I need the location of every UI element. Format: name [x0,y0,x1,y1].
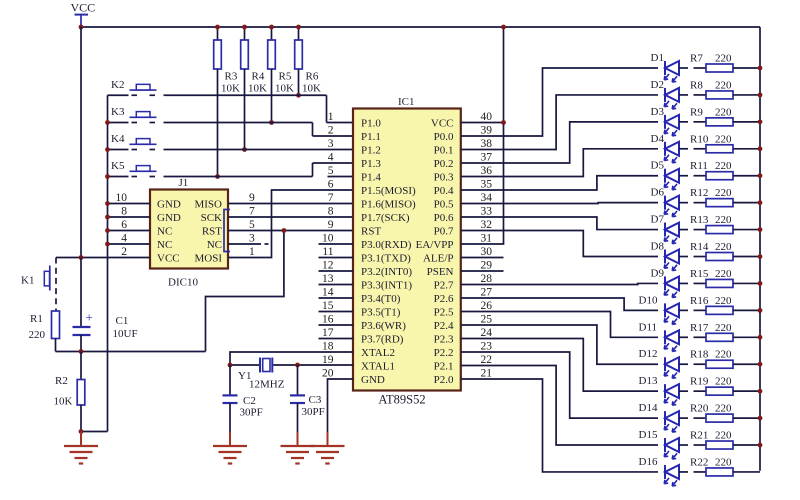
svg-text:C2: C2 [243,395,256,407]
wire P0.6 pin 33 to D7 [461,217,658,230]
wire left GND bus [107,95,109,431]
wire IC pin 5 stub [328,176,354,178]
LED D4 [651,133,680,163]
svg-text:23: 23 [481,341,493,353]
LED D12 [639,348,680,378]
resistor R18 [679,349,760,369]
capacitor C2 [223,365,263,432]
svg-text:1: 1 [249,246,255,258]
svg-text:VCC: VCC [157,253,180,265]
wire PSEN pin 29 stub [461,270,504,272]
svg-text:P2.3: P2.3 [434,334,454,346]
svg-text:220: 220 [715,79,732,91]
LED D5 [651,160,680,190]
svg-text:MISO: MISO [194,199,222,211]
svg-text:R8: R8 [690,79,703,91]
wire P0.3 pin 36 to D4 [461,149,658,177]
svg-text:10K: 10K [248,83,267,95]
svg-text:37: 37 [481,152,493,164]
wire P2.5 pin 26 to D11 [461,312,658,338]
svg-text:29: 29 [481,260,493,272]
LED D10 [639,294,680,324]
svg-text:D10: D10 [639,294,658,306]
svg-text:220: 220 [715,214,732,226]
svg-text:PSEN: PSEN [427,266,454,278]
wire P2.6 pin 27 to D10 [461,298,658,310]
svg-text:40: 40 [481,111,493,123]
svg-text:4: 4 [328,152,334,164]
svg-text:8: 8 [121,206,127,218]
svg-text:P1.7(SCK): P1.7(SCK) [361,212,410,224]
resistor R3 [214,27,240,177]
svg-text:P2.2: P2.2 [434,347,454,359]
svg-text:8: 8 [328,206,334,218]
svg-text:4: 4 [121,233,127,245]
svg-text:D1: D1 [651,52,664,64]
svg-text:9: 9 [249,192,255,204]
resistor R14 [679,241,760,261]
svg-text:R14: R14 [690,241,709,253]
wire VCC left column [80,27,82,258]
svg-text:K5: K5 [111,160,125,172]
capacitor C3 [290,365,325,432]
ground C3 [281,432,315,464]
wire K2 row to IC pin 1 [108,95,354,122]
svg-text:P3.3(INT1): P3.3(INT1) [361,280,412,292]
svg-text:30PF: 30PF [240,407,263,419]
LED D15 [639,429,680,459]
svg-text:25: 25 [481,314,493,326]
resistor R21 [679,430,760,450]
svg-text:6: 6 [328,179,334,191]
svg-text:P1.5(MOSI): P1.5(MOSI) [361,185,416,197]
wire P0.0 pin 39 to D1 [461,68,658,136]
resistor R7 [679,53,760,73]
wire MOSI J1 to IC pin 6 [228,190,353,258]
svg-text:D7: D7 [651,214,665,226]
resistor R4 [241,27,267,150]
resistor R22 [679,456,760,476]
junction dot bus D6 row [758,200,763,205]
svg-text:R19: R19 [690,376,709,388]
wire VCC pin 40 [461,122,504,124]
svg-text:220: 220 [715,268,732,280]
svg-text:RST: RST [361,226,381,238]
resistor R17 [679,322,760,342]
junction dot bus D7 row [758,227,763,232]
resistor R15 [679,268,760,288]
IC U1 AT89S52 body [353,96,461,407]
svg-text:1: 1 [328,111,334,123]
LED D6 [651,187,680,217]
svg-text:DIC10: DIC10 [168,277,198,289]
pin numbers J1 right [249,192,255,258]
resistor R13 [679,214,760,234]
junction dot bus D2 row [758,93,763,98]
svg-text:220: 220 [715,187,732,199]
svg-text:D9: D9 [651,267,665,279]
junction dot bus D12 row [758,362,763,367]
button K3 [111,106,157,118]
resistor R16 [679,295,760,315]
junction dot bus D15 row [758,443,763,448]
LED D1 [651,52,680,82]
svg-text:34: 34 [481,192,493,204]
svg-text:P0.7: P0.7 [434,226,454,238]
svg-text:XTAL1: XTAL1 [361,361,395,373]
wire VCC top rail [81,26,760,28]
svg-text:13: 13 [322,273,334,285]
svg-text:220: 220 [29,329,46,341]
svg-text:P1.6(MISO): P1.6(MISO) [361,199,416,211]
LED D11 [639,321,680,351]
svg-text:220: 220 [715,376,732,388]
wire XTAL1 pin 19 crystal row [230,364,353,366]
svg-text:P0.2: P0.2 [434,158,454,170]
wire P2.7 pin 28 to D9 [461,283,658,284]
svg-text:P0.4: P0.4 [434,185,454,197]
svg-text:220: 220 [715,430,732,442]
resistor R11 [679,160,760,180]
svg-text:35: 35 [481,179,493,191]
svg-text:P0.6: P0.6 [434,212,454,224]
svg-text:P2.0: P2.0 [434,374,454,386]
wire RST J1 to IC pin 9 [228,230,353,232]
svg-text:R17: R17 [690,322,709,334]
LED D2 [651,79,680,109]
svg-text:R10: R10 [690,133,709,145]
svg-text:D13: D13 [639,375,658,387]
capacitor C1 [73,258,138,352]
svg-text:P1.1: P1.1 [361,131,381,143]
wire LED supply right bus [759,27,761,471]
IC right pin labels [416,118,454,387]
svg-text:P3.6(WR): P3.6(WR) [361,320,406,332]
junction dot K4 on bus [105,147,110,152]
svg-text:P2.7: P2.7 [434,280,454,292]
svg-text:R12: R12 [690,187,708,199]
svg-text:J1: J1 [179,177,189,189]
svg-text:10: 10 [322,233,334,245]
svg-text:36: 36 [481,165,493,177]
resistor R10 [679,133,760,153]
svg-text:R5: R5 [279,71,292,83]
svg-text:5: 5 [328,165,334,177]
svg-text:18: 18 [322,341,334,353]
svg-text:R13: R13 [690,214,709,226]
svg-text:220: 220 [715,456,732,468]
wire SCK J1 to IC pin 8 [228,216,353,218]
wire EA/VPP pin 31 to VCC rail [461,27,504,244]
svg-text:39: 39 [481,125,493,137]
junction dot crystal right [295,363,300,368]
LED D8 [651,241,680,271]
junction dot J1 pin 10 bus [105,201,110,206]
svg-text:17: 17 [322,327,334,339]
svg-text:P0.5: P0.5 [434,199,454,211]
svg-text:R18: R18 [690,349,709,361]
svg-text:P1.4: P1.4 [361,172,381,184]
svg-text:2: 2 [121,246,127,258]
svg-text:12: 12 [322,260,334,272]
LED D7 [651,214,680,244]
svg-text:NC: NC [157,226,172,238]
svg-text:15: 15 [322,300,334,312]
svg-text:D2: D2 [651,79,664,91]
svg-text:MOSI: MOSI [194,253,222,265]
svg-text:220: 220 [715,160,732,172]
junction dot RST line [282,228,287,233]
IC right pin numbers [481,111,493,380]
wire J1 pin 4 stub [108,243,151,245]
svg-text:220: 220 [715,133,732,145]
resistor R8 [679,79,760,99]
svg-text:D14: D14 [639,402,658,414]
svg-text:P1.3: P1.3 [361,158,381,170]
resistor R2 [54,352,85,432]
junction dot R6 top rail [296,25,301,30]
junction dot J1 pin 8 bus [105,215,110,220]
svg-text:6: 6 [121,219,127,231]
svg-text:D8: D8 [651,241,665,253]
junction dot R5 bottom K3 row [269,120,274,125]
wire J1 pin 6 stub [108,230,151,232]
wire reset node row [56,351,206,353]
svg-text:2: 2 [328,125,334,137]
wire P0.1 pin 38 to D2 [461,95,658,150]
junction dot crystal left [228,363,233,368]
svg-text:R9: R9 [690,106,703,118]
resistor R5 [268,27,294,123]
wire ALE pin 30 stub [461,257,504,259]
junction dot VCC stem on rail [79,25,84,30]
wire J1 pin 2 VCC row [56,257,150,259]
svg-text:10: 10 [116,192,128,204]
svg-text:9: 9 [328,219,334,231]
LED D14 [639,402,680,432]
wire J1 pin 8 stub [108,216,151,218]
svg-text:XTAL2: XTAL2 [361,347,395,359]
junction dot R4 top rail [242,25,247,30]
svg-text:EA/VPP: EA/VPP [416,239,454,251]
svg-text:26: 26 [481,300,493,312]
wire GND pin 20 [328,379,354,432]
junction dot J1 pin 4 bus [105,242,110,247]
IC left pin labels [361,118,416,387]
svg-text:K3: K3 [111,106,125,118]
svg-text:R21: R21 [690,430,708,442]
wire P2.0 pin 21 to D16 [461,379,658,472]
svg-text:D5: D5 [651,160,665,172]
wire P2.1 pin 22 to D15 [461,366,658,446]
wire reset node to RST pin [206,231,284,352]
svg-text:P2.1: P2.1 [434,361,454,373]
button K4 [111,133,157,145]
svg-text:220: 220 [715,106,732,118]
svg-text:D15: D15 [639,429,658,441]
wire J1 pin 10 stub [108,203,151,205]
svg-text:38: 38 [481,138,493,150]
svg-text:C1: C1 [116,315,129,327]
svg-text:P0.3: P0.3 [434,172,454,184]
junction dot R6 bottom K2 row [296,93,301,98]
wire K3 row to IC pin 2 [108,123,354,137]
svg-text:P3.4(T0): P3.4(T0) [361,293,401,305]
junction dot bus D10 row [758,308,763,313]
svg-text:+: + [86,310,93,325]
wire J1 NC stub [228,243,269,245]
svg-text:32: 32 [481,219,493,231]
svg-text:P1.2: P1.2 [361,145,381,157]
svg-text:D6: D6 [651,187,665,199]
junction dot EA vertical top rail [501,25,506,30]
svg-text:P2.4: P2.4 [434,320,454,332]
svg-text:C3: C3 [309,394,322,406]
svg-text:P2.5: P2.5 [434,307,454,319]
svg-text:P3.7(RD): P3.7(RD) [361,334,404,346]
svg-text:16: 16 [322,314,334,326]
LED D13 [639,375,680,405]
svg-text:VCC: VCC [71,1,96,15]
svg-text:14: 14 [322,287,334,299]
svg-text:7: 7 [249,206,255,218]
power VCC symbol [71,1,96,28]
svg-text:10K: 10K [54,396,73,408]
resistor R20 [679,403,760,423]
wire P0.5 pin 34 to D6 [461,202,658,205]
svg-text:3: 3 [249,233,255,245]
junction dot bus D3 row [758,119,763,124]
svg-text:P0.1: P0.1 [434,145,454,157]
svg-text:24: 24 [481,327,493,339]
ground IC pin 20 [311,432,345,464]
svg-text:K1: K1 [21,275,34,287]
svg-text:K4: K4 [111,133,125,145]
junction dot VCC column pin2 row [79,255,84,260]
svg-text:D12: D12 [639,348,658,360]
svg-text:GND: GND [361,374,385,386]
resistor R19 [679,376,760,396]
resistor R1 [29,311,60,352]
svg-text:30PF: 30PF [302,406,325,418]
junction dot R5 top rail [269,25,274,30]
svg-text:P3.5(T1): P3.5(T1) [361,307,401,319]
svg-text:22: 22 [481,354,493,366]
resistor R6 [295,27,321,95]
junction dot bus D1 row [758,66,763,71]
wire P2.2 pin 23 to D14 [461,352,658,418]
svg-text:R11: R11 [690,160,708,172]
resistor R9 [679,106,760,126]
svg-text:10K: 10K [302,83,321,95]
crystal Y1 [238,358,285,391]
svg-text:SCK: SCK [201,212,222,224]
svg-text:30: 30 [481,246,493,258]
svg-text:AT89S52: AT89S52 [378,393,425,407]
junction dot C1 bottom reset row [79,349,84,354]
svg-text:R22: R22 [690,456,708,468]
pin numbers J1 left [116,192,128,258]
svg-text:R1: R1 [30,313,43,325]
svg-text:10UF: 10UF [113,328,138,340]
svg-text:27: 27 [481,287,493,299]
LED D9 [651,267,680,297]
svg-text:R4: R4 [252,71,265,83]
wire K1 branch from VCC node [55,258,57,312]
svg-text:R20: R20 [690,403,709,415]
svg-text:P1.0: P1.0 [361,118,381,130]
junction dot R3 top rail [215,25,220,30]
junction dot bus D9 row [758,281,763,286]
button K2 [111,79,157,91]
svg-text:P3.1(TXD): P3.1(TXD) [361,253,411,265]
junction dot R4 bottom K4 row [242,147,247,152]
svg-text:ALE/P: ALE/P [423,253,454,265]
svg-text:220: 220 [715,241,732,253]
bracket J1 right [224,210,230,252]
svg-text:D16: D16 [639,456,658,468]
ground C2 [213,432,247,464]
wire K4 row to IC pin 3 [108,149,354,151]
junction dot bus D14 row [758,416,763,421]
svg-text:GND: GND [157,199,181,211]
svg-text:220: 220 [715,295,732,307]
svg-text:IC1: IC1 [398,96,415,108]
svg-text:11: 11 [322,246,333,258]
svg-text:P3.2(INT0): P3.2(INT0) [361,266,412,278]
junction dot bus D13 row [758,389,763,394]
svg-text:D11: D11 [639,321,658,333]
wire P2.3 pin 24 to D13 [461,339,658,392]
wire P0.4 pin 35 to D5 [461,176,658,190]
svg-text:5: 5 [249,219,255,231]
svg-text:10K: 10K [221,83,240,95]
svg-text:R2: R2 [55,375,68,387]
svg-text:R3: R3 [225,71,238,83]
svg-text:D3: D3 [651,106,665,118]
LED D3 [651,106,680,136]
wire XTAL2 pin 18 [230,352,353,365]
junction dot K5 on bus [105,174,110,179]
junction dot bus D11 row [758,335,763,340]
svg-text:28: 28 [481,273,493,285]
IC left pin numbers [322,111,334,380]
svg-text:220: 220 [715,322,732,334]
svg-text:P3.0(RXD): P3.0(RXD) [361,239,412,251]
junction dot bus D4 row [758,146,763,151]
svg-text:VCC: VCC [431,118,454,130]
svg-text:33: 33 [481,206,493,218]
junction dot bus D8 row [758,254,763,259]
svg-text:NC: NC [207,239,222,251]
svg-text:220: 220 [715,403,732,415]
svg-text:7: 7 [328,192,334,204]
svg-text:R7: R7 [690,53,703,65]
junction dot R3 bottom K5 row [215,174,220,179]
resistor R12 [679,187,760,207]
svg-text:220: 220 [715,349,732,361]
wire P0.2 pin 37 to D3 [461,122,658,163]
wire MISO J1 to IC pin 7 [228,203,353,205]
wire K5 row to IC pin 4 [108,163,354,177]
svg-text:R6: R6 [306,71,319,83]
svg-text:P0.0: P0.0 [434,131,454,143]
svg-text:D4: D4 [651,133,665,145]
wire P0.7 pin 32 to D8 [461,231,658,257]
button K1 [21,266,50,291]
junction dot K3 on bus [105,120,110,125]
wire P2.4 pin 25 to D12 [461,325,658,364]
